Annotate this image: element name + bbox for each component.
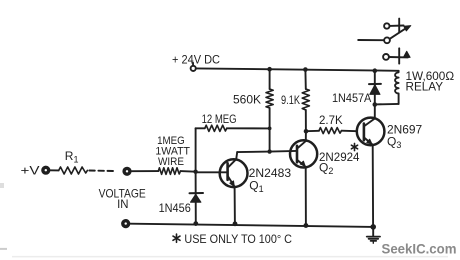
node +V input terminal [42,167,49,174]
wire dashed R1 to input terminal [89,170,113,173]
svg-text:+ 24V DC: + 24V DC [172,53,220,67]
svg-text:IN: IN [117,197,128,211]
diode 1N456 [195,172,197,224]
switch contact top [384,23,389,28]
transistor Q3 2N697 [357,118,385,146]
diode 1N457A [374,71,376,119]
wire base of Q1 [196,171,227,173]
node junction dots [267,67,272,72]
svg-text:9.1K: 9.1K [281,93,300,107]
resistor 560K [269,69,271,89]
svg-text:2.7K: 2.7K [319,113,343,127]
wire to 1MEG [131,170,158,172]
resistor 9.1K [304,70,306,90]
svg-text:WIRE: WIRE [158,156,184,168]
svg-text:SeekIC.com: SeekIC.com [382,241,457,257]
node voltage-in bottom terminal [122,220,129,227]
scan artifact bottom streak [12,256,448,258]
wire Q3 emitter to ground rail [372,145,374,227]
node +24V terminal [191,66,196,71]
asterisk Q2 mark [351,143,357,150]
wire top supply rail [196,68,399,70]
svg-text:RELAY: RELAY [406,79,444,93]
wire stub above +24V terminal [192,63,194,66]
wire relay bottom to diode bottom [375,103,399,106]
wire Q2 collector to node [305,131,307,141]
switch blade [358,39,384,41]
svg-text:+V: +V [21,163,40,177]
asterisk footnote mark [173,234,180,242]
switch contact bottom [383,54,389,60]
relay coil 1W 600ohm [395,71,399,104]
node voltage-in top terminal [123,168,130,175]
resistor 1MEG 1WATT WIRE [158,168,180,175]
svg-text:560K: 560K [233,92,261,106]
wire Q1 collector to Q2 base [237,151,296,152]
wire ground rail [130,224,373,227]
resistor R1 [59,167,88,174]
svg-text:1N456: 1N456 [159,201,191,215]
wire Q2 emitter to ground rail [305,167,307,226]
transistor Q2 2N2924 [290,140,317,167]
transistor Q1 2N2483 [220,159,248,187]
ground [372,227,374,237]
wire from +V to R1 [50,169,58,171]
svg-text:1N457A: 1N457A [332,91,371,105]
svg-text:12 MEG: 12 MEG [202,112,237,126]
resistor 12 MEG [195,128,197,171]
svg-text:USE ONLY TO 100° C: USE ONLY TO 100° C [184,232,292,246]
wire Q1 emitter to ground rail [234,187,236,224]
resistor 2.7K [306,130,319,132]
